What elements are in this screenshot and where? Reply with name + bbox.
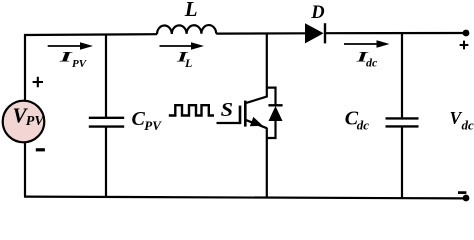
PWM gate signal — [169, 105, 214, 115]
node output+ (terminal dot) — [463, 30, 470, 37]
wire inductor to diode — [216, 32, 306, 34]
arrow IPV — [48, 45, 82, 47]
svg-text:PV: PV — [144, 118, 162, 133]
node output- (terminal dot) — [463, 195, 470, 202]
source VPV — [3, 101, 45, 143]
wire emitter — [266, 128, 268, 198]
wire diode to output — [325, 32, 466, 34]
label + output — [460, 41, 469, 50]
wire collector — [266, 34, 268, 98]
wire gate lead — [217, 122, 241, 124]
svg-text:L: L — [184, 0, 198, 21]
wire Cdc branch lower — [401, 127, 403, 198]
wire bottom rail — [24, 197, 466, 199]
label IL — [175, 50, 192, 70]
label Idc — [355, 50, 378, 70]
svg-text:PV: PV — [26, 114, 46, 129]
svg-text:D: D — [310, 3, 324, 23]
label + source — [33, 77, 43, 87]
svg-text:L: L — [184, 56, 192, 70]
svg-text:dc: dc — [462, 118, 474, 133]
wire left rail upper — [24, 34, 26, 101]
label CPV — [132, 108, 163, 133]
wire left rail lower — [24, 142, 26, 196]
label VPV — [13, 104, 46, 130]
label - source — [36, 148, 45, 151]
diode D — [305, 23, 324, 43]
arrow IL — [160, 45, 194, 47]
wire Cdc branch upper — [401, 33, 403, 117]
svg-text:dc: dc — [357, 117, 370, 132]
svg-text:S: S — [221, 100, 234, 121]
label IPV — [58, 50, 88, 70]
transistor S (IGBT) — [240, 97, 267, 129]
wire top rail — [24, 33, 157, 36]
inductor L — [157, 25, 216, 34]
capacitor Cdc — [386, 118, 419, 126]
arrow Idc — [344, 43, 379, 45]
svg-text:dc: dc — [366, 56, 378, 70]
capacitor CPV — [89, 118, 124, 127]
wire CPV branch lower — [105, 127, 107, 197]
label Cdc — [345, 108, 370, 133]
svg-text:PV: PV — [72, 58, 88, 70]
label Vdc — [450, 108, 474, 133]
label - output — [458, 191, 466, 194]
wire CPV branch upper — [105, 35, 107, 117]
diode antiparallel — [267, 88, 283, 138]
